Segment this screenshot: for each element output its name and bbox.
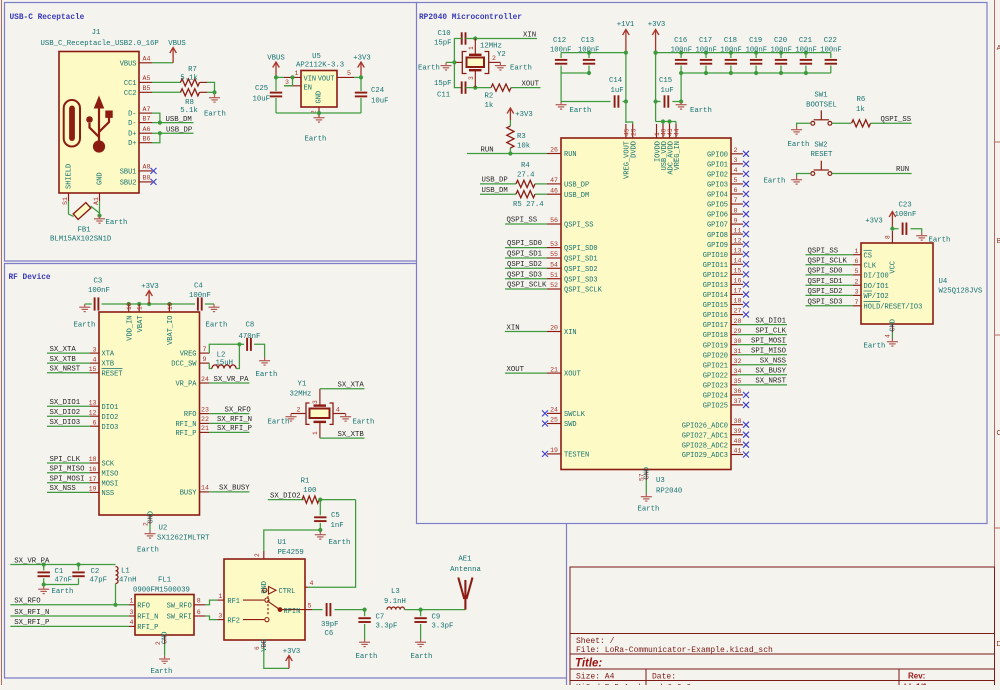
U2 top pin VBAT [138,304,140,312]
svg-text:VBAT_IO: VBAT_IO [167,316,175,345]
svg-text:1: 1 [130,598,134,605]
earth at C8 [259,358,270,366]
U3 top pin 44 VREG_IN [675,124,677,138]
svg-text:47nF: 47nF [55,576,73,584]
U3 top pin 23 DVDD [632,124,634,138]
svg-text:C20: C20 [774,37,787,45]
svg-text:3: 3 [130,609,134,616]
svg-text:12: 12 [734,237,742,244]
resistor R4 on USB_DP [480,183,516,185]
svg-text:GPIO0: GPIO0 [707,151,728,159]
svg-text:10uF: 10uF [253,96,271,104]
junction left gnd column [452,60,456,64]
svg-text:DIO1: DIO1 [102,404,119,412]
svg-text:RF1: RF1 [227,598,240,606]
junction C9 [419,608,423,612]
svg-text:USB_C_Receptacle_USB2.0_16P: USB_C_Receptacle_USB2.0_16P [41,40,159,48]
svg-text:10uF: 10uF [371,98,389,106]
svg-text:C19: C19 [749,37,762,45]
svg-text:SX_BUSY: SX_BUSY [219,485,250,493]
svg-text:30: 30 [734,338,742,345]
svg-text:GPIO8: GPIO8 [707,232,728,240]
svg-text:C5: C5 [331,512,340,520]
svg-text:C11: C11 [437,92,451,100]
svg-text:QSPI_SD0: QSPI_SD0 [808,268,843,276]
junction VBUS/C25 [274,75,278,79]
tie bar IOVDD USB_VDD ADC_AVDD VREG_IN [656,121,676,123]
svg-text:34: 34 [734,368,742,375]
Y1 pin 4 right to earth [333,413,346,415]
svg-text:RESET: RESET [102,370,123,378]
frame zone tick y=528 [995,527,1000,529]
svg-text:Earth: Earth [764,178,786,186]
svg-text:40: 40 [734,438,742,445]
svg-text:XOUT: XOUT [564,371,581,379]
svg-text:53: 53 [550,241,558,248]
U2 pin 16 MISO with label SPI_MISO [90,472,99,474]
wire C6 to C7 node [335,609,365,611]
svg-text:C23: C23 [899,202,912,210]
U2 pin 4 XTB with label SX_XTB [90,362,99,364]
svg-text:VBAT: VBAT [137,316,145,333]
+1V1 column down to U3 pins [625,53,627,123]
svg-text:R8: R8 [185,99,194,107]
svg-text:100nF: 100nF [88,287,110,295]
capacitor C25 [275,77,277,91]
svg-text:BLM15AX102SN1D: BLM15AX102SN1D [50,236,112,244]
svg-text:GPIO2: GPIO2 [707,171,728,179]
earth below U5 [314,115,325,123]
svg-text:SX_DIO1: SX_DIO1 [50,399,81,407]
+3V3 top rail to C16-C22 [656,52,831,54]
svg-text:27: 27 [734,308,742,315]
svg-text:100nF: 100nF [746,47,767,55]
wire XIN to U3 [505,331,547,333]
capacitor C19 [755,53,757,58]
junction L1/SX_RFO [113,603,117,607]
svg-text:1nF: 1nF [331,522,344,530]
svg-text:15: 15 [89,366,97,373]
svg-text:QSPI_SD0: QSPI_SD0 [507,240,542,248]
capacitor C8 [247,338,251,351]
svg-text:SX_NSS: SX_NSS [760,358,787,366]
junction D- tie [158,121,162,125]
U5 pin 2 GND stub [318,107,320,117]
U3 top pin 45 VREG_VOUT [625,124,627,138]
svg-text:AP2112K-3.3: AP2112K-3.3 [296,62,344,70]
svg-text:XOUT: XOUT [507,366,525,374]
U3 top pin 43 ADC_AVDD [669,124,671,138]
svg-text:100nF: 100nF [820,47,841,55]
svg-text:BUSY: BUSY [180,490,198,498]
svg-text:XTA: XTA [102,351,115,359]
U5 pin 1 VIN stub [284,76,301,78]
U3 pin 55 QSPI_SD1 [547,257,561,259]
svg-text:31: 31 [734,348,742,355]
svg-text:SBU2: SBU2 [120,179,137,187]
U2 pin 15 RESET with label SX_NRST [90,372,99,374]
U3 pin 25 SWD [547,423,561,425]
svg-text:SX_RFO: SX_RFO [225,406,252,414]
svg-text:DCC_SW: DCC_SW [171,361,197,369]
wire FB1 to gnd node [91,206,100,213]
svg-text:17: 17 [734,288,742,295]
svg-text:USB-C Receptacle: USB-C Receptacle [10,14,85,22]
svg-text:XIN: XIN [564,329,577,337]
svg-text:C10: C10 [438,30,451,38]
svg-text:GPIO4: GPIO4 [707,192,728,200]
svg-text:Y2: Y2 [497,51,506,59]
svg-text:Title:: Title: [575,658,602,670]
resistor R7 [181,79,200,86]
wire R6 to QSPI_SS label [871,122,912,124]
Y1 pin 1 bottom to SX_XTB [319,422,321,438]
junction C8/L2 node [237,342,241,346]
U3 pin 52 QSPI_SCLK [547,288,561,290]
svg-text:B6: B6 [143,136,151,143]
svg-text:D+: D+ [128,140,136,148]
svg-text:DVDD: DVDD [631,141,639,158]
svg-text:Earth: Earth [418,65,440,73]
svg-text:GND: GND [97,172,105,185]
wire CC2 to R8 [152,91,181,93]
U1 internal switch graphics [243,587,278,622]
earth below C9 [415,639,426,647]
power symbol +3V3 at U5 output [358,62,365,77]
svg-text:CTRL: CTRL [279,588,296,596]
J1 pin A6 stub [139,132,152,134]
wire XOUT to U3 [505,372,547,374]
inductor L3 [387,607,405,610]
svg-text:25: 25 [550,417,558,424]
svg-text:SPI_MISO: SPI_MISO [50,466,86,474]
capacitor C23 [892,228,898,230]
U2 pin 13 DIO1 with label SX_DIO1 [90,405,99,407]
svg-text:GPIO21: GPIO21 [703,362,728,370]
wire VDD to +3V3 [264,648,289,668]
earth at C23 [916,233,927,241]
svg-text:C1: C1 [55,568,64,576]
svg-text:3: 3 [734,157,738,164]
svg-text:29: 29 [734,328,742,335]
svg-text:SX_XTA: SX_XTA [338,382,365,390]
J1 pin A7 stub [139,112,152,114]
svg-text:SPI_MOSI: SPI_MOSI [50,476,85,484]
svg-text:SX_XTB: SX_XTB [338,431,365,439]
capacitor C22 [830,53,832,58]
svg-text:52: 52 [550,282,558,289]
inductor L1 vertical [116,567,119,584]
svg-text:Earth: Earth [570,107,592,115]
wire XIN node [466,38,538,40]
wire CTRL vertical [308,500,356,588]
wire D- A7 jog down to USB_DM net [152,113,160,123]
C12 C13 ground link [561,72,589,74]
svg-text:QSPI_SD2: QSPI_SD2 [808,288,843,296]
U3 pin 24 SWCLK [547,412,561,414]
svg-text:SX_RFI_P: SX_RFI_P [14,619,49,627]
wire RFIN to C6 [312,609,323,611]
power symbol VBUS at U5 [273,62,280,77]
junction C2 tap [76,562,80,566]
svg-text:+3V3: +3V3 [141,283,159,291]
svg-text:100nF: 100nF [771,47,792,55]
svg-text:4: 4 [885,334,892,338]
wire CC1 to R7 [152,81,181,83]
svg-text:Earth: Earth [329,539,351,547]
svg-text:QSPI_SCLK: QSPI_SCLK [564,287,603,295]
power symbol +3V3 at U1 [286,656,293,669]
svg-text:5.1k: 5.1k [180,74,198,82]
svg-text:GPIO28_ADC2: GPIO28_ADC2 [682,442,728,450]
U5 pin 5 VOUT stub [337,76,354,78]
svg-text:CC1: CC1 [124,80,137,88]
svg-text:Earth: Earth [204,111,226,119]
Y1 pin 2 left to earth [291,413,306,415]
svg-text:100nF: 100nF [720,47,741,55]
connector J1 body [59,52,139,194]
svg-text:13: 13 [734,247,742,254]
svg-text:14: 14 [201,485,209,492]
wire QSPI_SD0 to U3 [505,247,547,249]
capacitor C17 [705,53,707,58]
svg-text:0900FM1500039: 0900FM1500039 [133,586,190,594]
power symbol VBUS at J1 [170,48,177,63]
svg-text:QSPI_SD3: QSPI_SD3 [808,299,843,307]
svg-text:55: 55 [550,251,558,258]
svg-text:C18: C18 [724,37,737,45]
earth below U4 [887,339,898,347]
earth at C3 [79,304,90,312]
svg-text:SX_RFO: SX_RFO [14,598,41,606]
U4 pin 4 GND stub [891,324,893,332]
inductor L2 loop from DCC_SW [209,363,212,368]
svg-text:A4: A4 [143,56,151,63]
svg-text:C8: C8 [246,322,255,330]
svg-text:8: 8 [197,598,201,605]
U2 pin 22 RFI_N [200,422,210,424]
RF switch U1 body [224,559,305,640]
wire USB_DP [152,132,194,134]
svg-text:GPIO1: GPIO1 [707,161,728,169]
svg-text:51: 51 [550,272,558,279]
svg-text:41: 41 [734,448,742,455]
svg-text:RFI_P: RFI_P [175,430,196,438]
svg-text:+1V1: +1V1 [617,21,635,29]
U2 pin 24 VR_PA [200,382,210,384]
svg-text:RFIN: RFIN [284,608,301,616]
wire R2 to XOUT label [511,87,541,89]
svg-text:9: 9 [203,356,207,363]
svg-text:USB_DM: USB_DM [166,116,192,124]
svg-text:9.1nH: 9.1nH [384,598,406,606]
svg-text:R2: R2 [485,93,494,101]
svg-text:MOSI: MOSI [102,480,119,488]
wire SX_RFI_N to FL1 [10,615,129,617]
power symbol +3V3 for R3 [507,108,514,120]
Y2 pin 1 [474,39,476,55]
svg-text:Earth: Earth [106,219,128,227]
svg-text:1: 1 [295,70,299,77]
svg-text:R5 27.4: R5 27.4 [513,201,544,209]
svg-text:S1: S1 [62,197,69,205]
svg-text:1k: 1k [485,102,494,110]
frame zone tick y=335 [995,334,1000,336]
svg-text:23: 23 [630,128,637,136]
svg-text:Earth: Earth [74,322,96,330]
svg-text:SW_RFI: SW_RFI [167,614,192,622]
svg-text:32: 32 [734,358,742,365]
svg-text:Earth: Earth [356,653,378,661]
svg-text:24: 24 [550,407,558,414]
svg-text:U1: U1 [278,539,287,547]
svg-text:14: 14 [734,257,742,264]
svg-text:RESET: RESET [811,151,834,159]
svg-text:RFI_N: RFI_N [175,421,196,429]
svg-text:2: 2 [855,279,859,286]
svg-text:GPIO5: GPIO5 [707,202,728,210]
svg-text:SX_NRST: SX_NRST [50,366,81,374]
junction C7 [363,608,367,612]
svg-text:4: 4 [93,356,97,363]
svg-text:R3: R3 [517,133,526,141]
svg-text:QSPI_SCLK: QSPI_SCLK [808,258,848,266]
svg-text:6: 6 [197,609,201,616]
svg-text:GPIO18: GPIO18 [703,332,728,340]
svg-text:GPIO19: GPIO19 [703,342,728,350]
wire SX_RFI_P to FL1 [10,625,129,627]
FL1 pin 4 RFI_P [129,625,135,627]
svg-text:15pF: 15pF [434,40,452,48]
svg-text:U2: U2 [159,525,168,533]
svg-text:C25: C25 [255,85,268,93]
filter FL1 body [135,595,194,636]
svg-text:38: 38 [734,418,742,425]
U2 pin 18 SCK with label SPI_CLK [90,462,99,464]
svg-text:VREG: VREG [180,351,197,359]
svg-text:GPIO22: GPIO22 [703,372,728,380]
capacitor C9 shunt [420,610,422,617]
svg-text:XIN: XIN [523,31,536,39]
svg-text:C6: C6 [325,630,334,638]
earth at C4 [209,304,220,312]
J1 pin B7 stub [139,122,152,124]
RF transceiver U2 body [99,312,200,515]
svg-text:C21: C21 [799,37,813,45]
SW2 left wire to earth [797,174,811,177]
svg-text:QSPI_SD1: QSPI_SD1 [808,278,844,286]
ground drop to earth near C15 [680,73,682,102]
svg-text:MISO: MISO [102,470,119,478]
svg-text:Earth: Earth [268,419,290,427]
svg-text:GPIO12: GPIO12 [703,272,728,280]
wire C14 to +1V1 column [623,101,626,103]
capacitor C14 [615,95,619,107]
svg-text:QSPI_SCLK: QSPI_SCLK [507,282,547,290]
svg-text:RFI_N: RFI_N [137,614,158,622]
svg-text:QSPI_SS: QSPI_SS [881,116,912,124]
FL1 pin 8 SW_RFO [194,604,205,606]
svg-text:A: A [997,45,1000,52]
svg-text:GND: GND [261,581,269,594]
svg-text:17: 17 [89,476,97,483]
svg-text:GND: GND [316,91,324,104]
svg-text:8: 8 [734,207,738,214]
svg-text:VIN: VIN [304,75,317,83]
svg-text:37: 37 [734,398,742,405]
section box RP2040 Microcontroller [417,3,988,524]
U5 pin 3 EN stub [284,85,301,87]
svg-text:DIO3: DIO3 [102,424,119,432]
svg-text:5: 5 [855,268,859,275]
svg-text:+3V3: +3V3 [648,21,666,29]
svg-text:A8: A8 [143,164,151,171]
svg-text:Earth: Earth [638,506,660,514]
svg-text:CLK: CLK [864,262,877,270]
svg-text:L2: L2 [217,352,226,360]
svg-text:39pF: 39pF [321,621,339,629]
microcontroller U3 body [561,138,731,470]
svg-text:D: D [996,641,1000,648]
wire C10 left to gnd column [454,39,461,88]
svg-text:100nF: 100nF [795,47,816,55]
wire shield to FB1 [69,201,74,217]
+3V3 column down to U3 pins [655,53,657,122]
svg-text:GPIO23: GPIO23 [703,382,728,390]
svg-text:+3V3: +3V3 [515,111,533,119]
wire SX_RFO to FL1 [10,604,129,606]
wire QSPI_SD1 to U3 [505,257,547,259]
svg-text:Earth: Earth [929,237,951,245]
svg-text:HOLD/RESET/IO3: HOLD/RESET/IO3 [864,303,923,311]
svg-text:SX_NRST: SX_NRST [755,378,786,386]
capacitor C13 [588,53,590,58]
svg-text:100: 100 [303,487,316,495]
svg-text:1: 1 [855,248,859,255]
svg-text:GND: GND [890,319,898,332]
svg-text:3: 3 [285,79,289,86]
junction R8 output [212,90,216,94]
svg-text:USB_DM: USB_DM [482,187,508,195]
SW1 right wire to R6 [832,122,851,124]
svg-text:USB_DP: USB_DP [482,177,508,185]
Y2 pin 2 right to earth [489,61,501,63]
U1 pin 5 RFIN [305,609,312,611]
+1V1 top rail [561,52,626,54]
svg-text:L3: L3 [391,588,400,596]
power symbol +3V3 rail [652,30,659,53]
earth below C7 [359,639,370,647]
svg-text:SX_VR_PA: SX_VR_PA [214,376,250,384]
svg-text:GPIO27_ADC1: GPIO27_ADC1 [682,432,728,440]
svg-text:Y1: Y1 [298,381,307,389]
svg-text:SWCLK: SWCLK [564,411,586,419]
svg-text:GPIO14: GPIO14 [703,292,728,300]
section box RF Device [5,264,567,686]
svg-text:22: 22 [201,416,209,423]
U1 pin 3 RF2 [217,619,224,621]
svg-text:36: 36 [734,388,742,395]
capacitor C12 [560,53,562,58]
wire U5 GND pin to rail [318,113,320,117]
svg-text:+3V3: +3V3 [865,218,883,226]
svg-text:Earth: Earth [52,588,74,596]
resistor R1 on SX_DIO2 [268,499,304,501]
svg-text:GPIO10: GPIO10 [703,252,728,260]
U3 pin 54 QSPI_SD2 [547,267,561,269]
svg-text:U3: U3 [656,477,665,485]
svg-text:SX_DIO2: SX_DIO2 [270,492,301,500]
